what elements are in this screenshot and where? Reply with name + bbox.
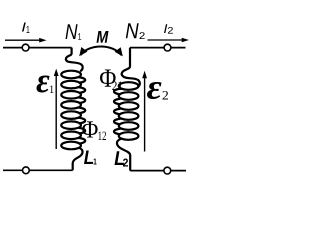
wire bottom-right: [130, 170, 186, 172]
label Phi21: [100, 70, 122, 91]
current arrow I1: [5, 38, 47, 43]
label N1: [66, 24, 82, 40]
inductor L2 coil: [114, 48, 140, 171]
emf arrow E1: [54, 69, 59, 149]
wire top-left: [3, 47, 72, 49]
current arrow I2: [148, 38, 190, 43]
label E1: [37, 76, 54, 94]
terminal top-right: [164, 44, 171, 51]
label M: [97, 31, 109, 43]
label L1: [84, 151, 97, 165]
inductor L1 coil: [61, 48, 85, 171]
label L2: [115, 151, 129, 166]
label I2: [164, 24, 173, 33]
wire top-right: [130, 47, 186, 49]
terminal bottom-left: [23, 167, 30, 174]
label N2: [126, 23, 145, 39]
label I1: [22, 23, 30, 34]
terminal bottom-right: [164, 167, 171, 174]
label Phi12: [82, 121, 106, 140]
label E2: [147, 82, 168, 100]
mutual inductance arrow M: [79, 46, 123, 56]
emf arrow E2: [142, 71, 147, 152]
terminal top-left: [22, 44, 29, 51]
wire bottom-left: [3, 169, 73, 171]
